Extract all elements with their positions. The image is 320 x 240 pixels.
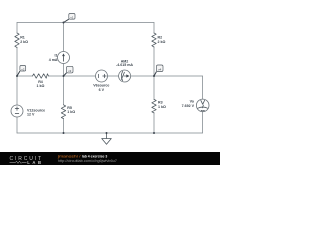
wire middle horizontal left: [17, 75, 33, 77]
CircuitLab logo: [10, 156, 42, 165]
svg-text:v3: v3: [68, 69, 72, 73]
svg-text:1 kΩ: 1 kΩ: [37, 84, 45, 88]
svg-text:I1: I1: [55, 53, 58, 57]
node dot v3 junction: [63, 75, 65, 77]
svg-text:v2: v2: [21, 68, 25, 72]
resistor R5: [61, 105, 65, 119]
node flag v3: [64, 66, 74, 76]
svg-text:1 kΩ: 1 kΩ: [67, 110, 75, 114]
wire right column lower: [202, 112, 204, 133]
svg-text:http://circuitlab.com/c/hg6jwf: http://circuitlab.com/c/hg6jwfvb6u7: [58, 159, 117, 163]
node dot v2 junction: [16, 75, 18, 77]
svg-text:LAB: LAB: [27, 160, 41, 165]
resistor R1: [15, 33, 19, 48]
wire column A below middle: [63, 76, 65, 105]
wire column A lower: [63, 119, 65, 133]
watermark banner: [0, 152, 220, 165]
node dot v1 junction: [63, 22, 65, 24]
wire right column upper: [202, 76, 204, 99]
svg-text:v1: v1: [70, 16, 74, 20]
svg-text:R2: R2: [158, 36, 163, 40]
voltage source V1: [11, 105, 23, 117]
wire middle horizontal node-to-V2: [64, 75, 96, 77]
svg-text:-4.615 mA: -4.615 mA: [116, 63, 133, 67]
wire column B below middle: [153, 76, 155, 99]
node dot bottom B: [153, 132, 155, 134]
resistor R3: [152, 99, 156, 113]
svg-text:V6source: V6source: [93, 84, 109, 88]
wire bottom horizontal: [17, 132, 203, 134]
node dot bottom ground: [106, 132, 108, 134]
svg-text:2 kΩ: 2 kΩ: [20, 40, 28, 44]
svg-text:12 V: 12 V: [27, 113, 35, 117]
wire left column upper: [16, 23, 18, 34]
resistor R2: [152, 33, 156, 47]
ammeter AM2: [119, 70, 131, 82]
svg-text:7.692 V: 7.692 V: [182, 104, 195, 108]
voltmeter Vo: [196, 99, 209, 112]
node flag v2: [17, 66, 26, 77]
svg-text:R1: R1: [20, 36, 25, 40]
svg-text:v4: v4: [158, 67, 162, 71]
wire middle horizontal AM2-to-right: [131, 75, 203, 77]
node flag v1: [64, 14, 76, 23]
ground: [106, 133, 108, 139]
wire column B upper: [153, 23, 155, 34]
wire column B mid: [153, 47, 155, 76]
node flag v4: [154, 65, 163, 76]
node dot v4 junction: [153, 75, 155, 77]
voltage source V2: [96, 70, 108, 82]
wire middle horizontal V2-to-AM2: [108, 75, 119, 77]
svg-text:1 kΩ: 1 kΩ: [158, 105, 166, 109]
wire column A mid: [63, 64, 65, 77]
wire left column middle: [16, 48, 18, 106]
svg-text:jmanoshi / lab 4 exercise 3: jmanoshi / lab 4 exercise 3: [57, 154, 108, 158]
svg-text:R3: R3: [158, 100, 163, 104]
svg-text:2 kΩ: 2 kΩ: [158, 40, 166, 44]
wire column B lower: [153, 113, 155, 133]
node dot bottom A: [63, 132, 65, 134]
wire top horizontal: [17, 22, 154, 24]
svg-text:6 V: 6 V: [99, 88, 105, 92]
wire column A upper: [63, 23, 65, 52]
svg-text:4 mA: 4 mA: [49, 58, 58, 62]
current source I1: [58, 52, 70, 64]
wire middle horizontal R4-to-node: [49, 75, 64, 77]
resistor R4: [33, 74, 49, 78]
wire left column lower: [16, 117, 18, 133]
